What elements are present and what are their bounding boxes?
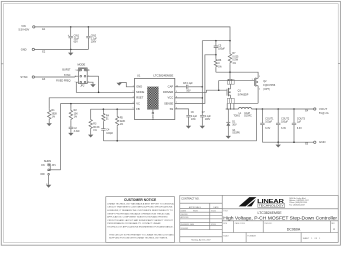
node VOUT label: [319, 107, 329, 115]
capacitor CIN2: [86, 27, 97, 50]
svg-text:SYNC: SYNC: [64, 74, 71, 77]
svg-text:(OPT): (OPT): [263, 88, 270, 91]
resistor R3: [89, 118, 100, 135]
svg-text:U1: U1: [137, 73, 141, 77]
svg-text:100µF: 100µF: [265, 121, 272, 124]
svg-text:High Voltage, P-CH MOSFET Step: High Voltage, P-CH MOSFET Step-Down Cont…: [223, 216, 337, 221]
svg-text:CAP: CAP: [168, 85, 174, 89]
svg-text:CIRCUIT BOARD LAYOUT MAY SIGNI: CIRCUIT BOARD LAYOUT MAY SIGNIFICANTLY A…: [107, 219, 173, 222]
wire sense node rail: [216, 71, 258, 76]
svg-text:4: 4: [259, 88, 260, 90]
svg-text:TECHNOLOGY: TECHNOLOGY: [259, 204, 284, 208]
wire switch node bus: [226, 108, 239, 110]
svg-text:SUPPLIED FOR USE WITH LINEAR T: SUPPLIED FOR USE WITH LINEAR TECHNOLOGY …: [109, 236, 168, 239]
wire RSET to R1: [49, 98, 134, 109]
svg-text:HOWEVER, IT REMAINS THE CUSTOM: HOWEVER, IT REMAINS THE CUSTOMER'S RESPO…: [107, 209, 173, 212]
logo Linear Technology: [239, 197, 309, 208]
svg-text:SS: SS: [170, 107, 174, 111]
svg-text:BURST: BURST: [62, 68, 71, 71]
ground at JP2 pin6: [87, 82, 96, 87]
svg-text:1µF: 1µF: [297, 121, 302, 124]
svg-text:3: 3: [259, 76, 260, 78]
resistor R2: [69, 104, 78, 128]
wire VOUT rail: [252, 108, 314, 110]
svg-text:100µF: 100µF: [281, 121, 288, 124]
wire JP1 pin2 to VC net: [49, 169, 60, 171]
wire VIN rail: [35, 26, 230, 41]
wire VIN sense top node: [202, 40, 230, 42]
svg-text:FB: FB: [136, 107, 140, 111]
resistor R7: [228, 41, 239, 72]
svg-text:5.5V-60V: 5.5V-60V: [19, 27, 30, 31]
ground below JP1: [46, 185, 51, 188]
terminal E1: [33, 26, 46, 31]
svg-text:50V: 50V: [186, 89, 191, 92]
svg-text:1: 1: [75, 69, 76, 71]
svg-text:DWG NO.: DWG NO.: [265, 223, 273, 225]
svg-text:3: 3: [75, 75, 76, 77]
wire SYNC to JP2: [35, 75, 79, 78]
wire SENSE pin to sense node: [175, 55, 216, 104]
svg-text:MODE: MODE: [78, 63, 86, 67]
ground below C6: [186, 126, 191, 129]
svg-text:PERFORMANCE OR RELIABILITY. C: PERFORMANCE OR RELIABILITY. CONTACT LINE…: [107, 222, 161, 225]
capacitor C6: [186, 111, 197, 126]
svg-text:GND: GND: [21, 47, 27, 51]
svg-text:CIRCUIT THAT MEETS CUSTOMER-SU: CIRCUIT THAT MEETS CUSTOMER-SUPPLIED SPE…: [107, 206, 173, 209]
svg-text:GND: GND: [151, 115, 154, 121]
wire VCC pin: [175, 97, 203, 99]
svg-text:JP2: JP2: [80, 85, 85, 88]
svg-text:100pF: 100pF: [218, 48, 225, 51]
svg-text:TOKO: TOKO: [233, 114, 240, 117]
svg-text:APPLICATION. COMPONENT SUBSTI: APPLICATION. COMPONENT SUBSTITUTION AND …: [107, 216, 168, 219]
svg-text:CUSTOMER NOTICE: CUSTOMER NOTICE: [124, 198, 157, 202]
transistor Q1: [226, 72, 249, 109]
wire GND rail: [35, 49, 89, 51]
ground below C7: [200, 126, 205, 129]
svg-text:Monday, April 16, 2007: Monday, April 16, 2007: [191, 238, 210, 241]
diode D1: [226, 109, 240, 136]
svg-text:100V: 100V: [205, 118, 211, 121]
svg-text:100pF: 100pF: [106, 132, 113, 135]
ground at output rail: [276, 142, 281, 147]
wire VC line: [61, 103, 135, 170]
capacitor CIN1: [68, 27, 80, 50]
svg-text:FQD17P06: FQD17P06: [263, 84, 276, 87]
ground below R1: [47, 123, 52, 126]
terminal E5: [305, 141, 316, 146]
svg-text:THIS CIRCUIT IS PROPRIETARY TO: THIS CIRCUIT IS PROPRIETARY TO LINEAR TE…: [109, 233, 174, 236]
svg-text:Si7465DP: Si7465DP: [238, 94, 249, 97]
node VIN input label: [19, 24, 30, 31]
wire SS pin to C6: [175, 109, 189, 115]
wire DRIVER to gates: [175, 81, 255, 93]
label BURST: [62, 68, 71, 71]
frame zone tick right: [338, 63, 340, 65]
customer notice box: [106, 197, 175, 243]
title block: [180, 195, 338, 242]
svg-text:OFF: OFF: [40, 173, 45, 176]
svg-text:MODE: MODE: [136, 90, 144, 94]
svg-text:ON: ON: [41, 164, 45, 167]
capacitor C8: [175, 82, 203, 92]
svg-text:LINEAR TECHNOLOGY HAS MADE A B: LINEAR TECHNOLOGY HAS MADE A BEST EFFORT…: [107, 202, 174, 205]
svg-text:1: 1: [252, 79, 253, 81]
wire VOUT feedback line: [103, 108, 257, 141]
capacitor COUT2: [276, 109, 290, 142]
svg-text:VCC: VCC: [168, 96, 174, 100]
wire VIN to VCC vertical: [202, 41, 204, 116]
svg-text:RSET: RSET: [136, 96, 144, 100]
title section: [222, 209, 338, 243]
svg-text:5: 5: [75, 81, 76, 83]
capacitor COUT1: [260, 109, 274, 142]
svg-text:VC: VC: [136, 101, 140, 105]
svg-text:JP1: JP1: [52, 164, 57, 167]
svg-text:HELEN: HELEN: [193, 211, 198, 213]
svg-text:VOUT: VOUT: [319, 107, 328, 111]
jumper JP2 MODE: [75, 63, 99, 88]
inductor L1: [233, 107, 252, 117]
ground below D1: [226, 136, 231, 139]
transistor Q2: [252, 76, 276, 104]
op-amp region: controller U1 LTC3824EMSE: [133, 73, 178, 119]
svg-text:6.3V: 6.3V: [281, 127, 286, 130]
wire JP2 pin4 down to MODE wire: [98, 76, 100, 93]
pin 11 exposed pad GND: [151, 110, 154, 121]
svg-text:SYNC: SYNC: [20, 75, 27, 79]
frame zone tick left: [1, 63, 3, 65]
svg-text:FILENAME: FILENAME: [247, 234, 256, 237]
label SYNC: [64, 74, 71, 77]
svg-text:6.3V: 6.3V: [297, 127, 302, 130]
wire JP2 pin5 to MODE pin: [76, 82, 134, 92]
capacitor C5: [214, 41, 226, 56]
svg-text:9/22/06: 9/22/06: [211, 211, 216, 213]
svg-text:Fax: (408)434-0507: Fax: (408)434-0507: [289, 204, 305, 206]
node GND output label: [319, 140, 327, 144]
capacitor C2: [69, 127, 81, 133]
capacitor C7: [200, 111, 211, 126]
svg-text:SCALE: SCALE: [223, 234, 229, 237]
svg-text:DRIVER: DRIVER: [163, 90, 173, 94]
svg-text:DC960A: DC960A: [287, 227, 301, 231]
svg-text:3.3nF: 3.3nF: [74, 130, 81, 133]
svg-text:63V: 63V: [74, 41, 79, 44]
resistor R5: [116, 109, 126, 141]
wire GND pin1 to ground: [119, 83, 134, 87]
svg-text:SS3P6: SS3P6: [232, 132, 240, 135]
svg-text:9/22/06: 9/22/06: [211, 224, 216, 226]
title block contract and approvals section: [180, 198, 222, 242]
svg-text:GND: GND: [319, 140, 327, 144]
ground at input rail: [68, 49, 73, 55]
ground at U1 pin1: [117, 83, 122, 86]
svg-text:C8 0.1µF: C8 0.1µF: [183, 82, 193, 85]
node GND input label: [21, 47, 27, 51]
svg-text:DATE: DATE: [213, 206, 219, 209]
svg-text:DESIGNER: DESIGNER: [181, 228, 189, 230]
svg-text:GND: GND: [136, 85, 142, 89]
ground below R3: [88, 135, 93, 138]
wire Q2 drain to switch node: [234, 102, 258, 104]
terminal E2: [32, 48, 46, 53]
svg-text:D104C: D104C: [244, 114, 252, 117]
wire output ground rail: [262, 141, 313, 143]
resistor R1: [48, 109, 58, 124]
svg-text:APPROVALS: APPROVALS: [189, 206, 202, 209]
label FIXED FREQ: [56, 80, 70, 83]
capacitor C4: [101, 129, 113, 141]
ground below C2: [68, 133, 73, 136]
svg-text:CHECKED: CHECKED: [181, 214, 188, 216]
resistor R4: [102, 109, 110, 129]
jumper JP1 SHDN: [40, 159, 56, 186]
svg-text:SHDN: SHDN: [44, 159, 51, 163]
svg-text:FIXED FREQ: FIXED FREQ: [56, 80, 70, 83]
wire JP1 pin3 to ground: [48, 175, 50, 185]
svg-text:2: 2: [133, 91, 134, 93]
svg-text:CAGE CODE: CAGE CODE: [235, 222, 246, 225]
svg-text:LTC3824EMSE: LTC3824EMSE: [257, 211, 282, 215]
terminal E4: [305, 108, 316, 113]
wire FB line: [91, 108, 135, 118]
svg-text:CONTRACT NO.: CONTRACT NO.: [181, 198, 199, 201]
svg-text:TECHNOLOGY APPLICATIONS ENGINE: TECHNOLOGY APPLICATIONS ENGINEERING FOR …: [107, 226, 173, 229]
terminal E3: [32, 76, 46, 81]
resistor R6: [214, 55, 222, 72]
node SYNC input label: [20, 75, 27, 79]
svg-text:SENSE: SENSE: [164, 101, 173, 105]
svg-text:LTC3824EMSE: LTC3824EMSE: [153, 73, 173, 77]
svg-text:SHEET 1 OF 1: SHEET 1 OF 1: [303, 238, 320, 240]
capacitor COUT3: [292, 109, 306, 142]
svg-text:VIN: VIN: [21, 24, 25, 28]
svg-text:VERIFY PROPER AND RELIABLE OPE: VERIFY PROPER AND RELIABLE OPERATION IN …: [107, 212, 170, 215]
svg-text:5V@ 2A: 5V@ 2A: [319, 111, 329, 115]
svg-text:30V: 30V: [232, 124, 237, 127]
svg-text:100V: 100V: [91, 41, 97, 44]
svg-text:6.3V: 6.3V: [265, 127, 270, 130]
